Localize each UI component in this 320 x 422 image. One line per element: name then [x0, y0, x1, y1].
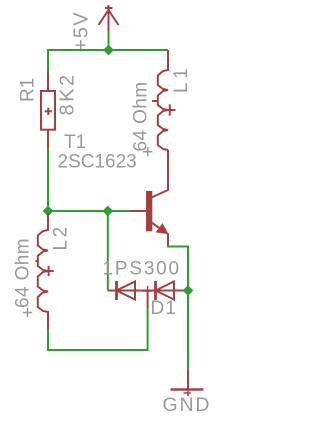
ground symbol	[171, 370, 204, 396]
wire: emitter to GND rail	[168, 245, 188, 291]
svg-text:L1: L1	[171, 65, 192, 93]
junction node left base rail	[43, 206, 54, 217]
junction node +5V rail	[103, 45, 114, 56]
+5V supply symbol	[99, 5, 119, 31]
L1 value origin cross	[143, 147, 152, 156]
transistor T1	[129, 150, 169, 245]
svg-text:2SC1623: 2SC1623	[58, 152, 137, 173]
svg-text:+5V: +5V	[71, 11, 93, 51]
svg-text:D1: D1	[151, 298, 177, 319]
svg-text:R1: R1	[18, 78, 39, 102]
inductor L1	[152, 50, 175, 150]
wire: base rail	[48, 210, 130, 212]
svg-text:T1: T1	[64, 132, 86, 153]
wire: R1 bottom to base node	[47, 149, 49, 211]
svg-text:64 Ohm: 64 Ohm	[131, 82, 152, 152]
wire: L2 bottom to D1 center tap	[48, 308, 148, 350]
wire: GND node down	[187, 291, 189, 371]
svg-text:GND: GND	[163, 394, 212, 416]
svg-text:8K2: 8K2	[57, 72, 79, 115]
junction node emitter/diode/GND	[183, 285, 194, 296]
wire: top +5V rail	[48, 50, 168, 71]
double diode D1 1PS300	[108, 281, 188, 308]
svg-text:64 Ohm: 64 Ohm	[13, 238, 34, 308]
resistor R1	[41, 71, 55, 149]
inductor L2	[36, 213, 54, 329]
wire: base node down to D1 anode	[107, 211, 109, 291]
svg-text:L2: L2	[51, 224, 72, 250]
wire: +5V symbol stub	[108, 31, 110, 50]
svg-text:1PS300: 1PS300	[103, 259, 181, 280]
L2 value origin cross	[23, 308, 32, 317]
junction node base/diode tap	[102, 206, 113, 217]
